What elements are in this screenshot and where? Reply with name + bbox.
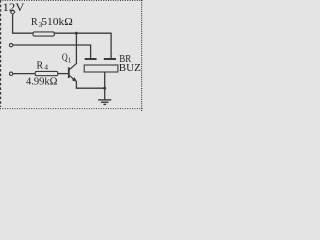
terminal R4 input — [9, 72, 12, 75]
svg-text:4.99kΩ: 4.99kΩ — [26, 76, 58, 87]
wire emitter down and right to ground node — [76, 81, 104, 88]
junction node A — [75, 32, 78, 35]
svg-text:4: 4 — [44, 62, 48, 71]
svg-text:BUZ: BUZ — [119, 63, 141, 74]
resistor R4 — [35, 71, 58, 75]
svg-text:510kΩ: 510kΩ — [41, 17, 73, 28]
svg-text:12V: 12V — [3, 0, 25, 14]
junction node ground — [103, 87, 106, 90]
transistor Q1 emitter lead with arrow — [69, 75, 76, 81]
wire 12V terminal down — [12, 14, 14, 33]
wire collector vertical — [75, 33, 77, 64]
wire R4 to base — [58, 73, 69, 75]
resistor R3 — [33, 32, 54, 36]
buzzer BR/BUZ right electrode — [104, 58, 116, 60]
terminal feedback input — [9, 43, 12, 46]
transistor Q1 collector lead — [69, 64, 76, 70]
buzzer BR/BUZ left electrode — [85, 58, 97, 60]
wire R3 to corner — [55, 32, 112, 34]
wire terminal to R4 — [13, 73, 36, 75]
border frame (decorative) — [0, 0, 143, 111]
transistor Q1 base bar — [68, 67, 70, 78]
wire top corner down to buzzer right electrode — [110, 33, 112, 59]
ground — [98, 88, 111, 104]
svg-text:R: R — [31, 17, 38, 28]
svg-text:1: 1 — [68, 56, 72, 64]
wire buzzer bottom lead — [104, 72, 106, 88]
wire feedback terminal to buzzer left electrode — [13, 45, 91, 59]
buzzer piezo disc — [84, 65, 118, 72]
terminal 12V input — [11, 10, 15, 14]
svg-text:R: R — [37, 60, 44, 71]
wire 12V to R3 — [12, 32, 34, 34]
